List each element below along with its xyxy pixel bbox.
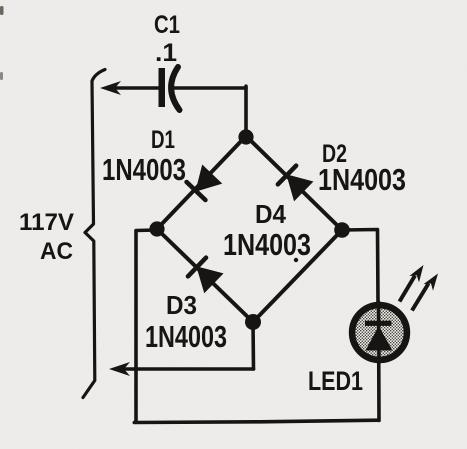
svg-text:D1: D1: [151, 126, 175, 154]
arrowhead: top AC lead: [100, 81, 121, 95]
LED1 body circle with halftone fill: [352, 305, 407, 360]
svg-text:117V: 117V: [19, 209, 74, 236]
wire: capacitor to top corner: [171, 86, 246, 90]
svg-text:1N4003: 1N4003: [223, 227, 311, 262]
node: bridge top junction: [238, 129, 253, 144]
wire: bridge edge top node to left node: [157, 136, 246, 229]
diode D1 cathode bar: [187, 182, 206, 200]
node: bridge right junction: [334, 222, 350, 238]
light ray arrow 2 head: [424, 274, 439, 291]
wire: right vertical through LED to bottom rail: [377, 302, 381, 421]
LED1 cathode bar: [365, 321, 392, 326]
117V AC source brace: [83, 70, 105, 398]
wire: vertical lead crossing LED body: [377, 305, 381, 360]
wire: bottom AC lead to arrow: [120, 367, 254, 371]
LED1 triangle (pointing up): [366, 326, 393, 351]
arrowhead: bottom AC lead: [109, 362, 130, 376]
stray print dot near D4 label: [294, 258, 298, 262]
wire: bridge edge left node to bottom node: [157, 229, 253, 322]
svg-text:1N4003: 1N4003: [102, 152, 186, 187]
light ray arrow 1 head: [409, 265, 423, 282]
diode D1 (top node to left node) triangle: [196, 165, 221, 191]
wire: left node jog to DC+ vertical: [136, 230, 157, 421]
wire: drop from top corner to bridge top node: [244, 86, 248, 136]
wire: top AC lead (arrow shaft to capacitor): [111, 86, 160, 90]
svg-text:1N4003: 1N4003: [318, 162, 406, 197]
wire: bridge edge bottom node to right node (D4 position): [253, 230, 342, 322]
node: bridge left junction: [149, 221, 164, 236]
wire: bottom rail: [134, 420, 378, 422]
light ray arrow 2 shaft: [412, 284, 429, 311]
wire: right node to right vertical corner: [342, 230, 378, 303]
diode D2 (right node to top node) triangle: [287, 175, 313, 200]
node: bridge bottom junction: [245, 314, 261, 330]
svg-text:D3: D3: [166, 290, 197, 320]
capacitor C1 left plate: [159, 68, 166, 107]
svg-text:1N4003: 1N4003: [145, 319, 227, 354]
svg-text:LED1: LED1: [308, 366, 363, 396]
wire: bridge edge top node to right node: [246, 136, 342, 230]
svg-text:C1: C1: [154, 11, 180, 39]
diode D3 cathode bar: [188, 258, 206, 277]
light ray arrow 1 shaft: [400, 276, 416, 302]
svg-text:.1: .1: [155, 39, 177, 67]
svg-text:AC: AC: [40, 238, 73, 265]
capacitor C1 right curved plate: [171, 67, 179, 110]
diode D3 (bottom node to left node) triangle: [197, 267, 223, 292]
wire: bottom node drop: [251, 322, 255, 369]
diode D2 cathode bar: [278, 166, 296, 185]
svg-text:D4: D4: [255, 199, 286, 229]
